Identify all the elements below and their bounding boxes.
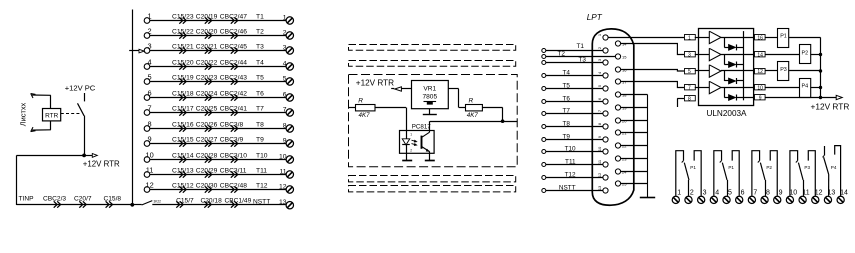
contact group P4 NO feed stub	[823, 146, 825, 157]
svg-text:CBC2/47: CBC2/47	[220, 13, 247, 20]
wire +12V RTR to TINP line	[17, 155, 85, 205]
svg-text:T3: T3	[579, 56, 587, 63]
relay coil P2	[800, 45, 811, 64]
svg-text:P4: P4	[802, 83, 809, 89]
screw terminal 4 (output)	[710, 189, 719, 203]
pin 10 of U1	[755, 85, 766, 92]
svg-text:CBC3/8: CBC3/8	[220, 121, 244, 128]
net labels row T2	[172, 28, 264, 35]
crossing marks row T7	[179, 109, 237, 115]
screw terminal 6	[283, 91, 294, 101]
wire U1 pin8 ground stub	[677, 99, 684, 108]
svg-text:+12V RTR: +12V RTR	[811, 101, 850, 111]
wire VR1 out to R2	[448, 89, 465, 108]
pin 6 of X1	[597, 97, 608, 104]
contact group P1 NO feed	[714, 151, 722, 196]
svg-text:T5: T5	[256, 74, 264, 81]
svg-text:5: 5	[148, 73, 152, 82]
pin 7 of U1	[685, 85, 696, 92]
svg-text:2: 2	[283, 29, 287, 36]
svg-text:10: 10	[597, 146, 602, 151]
svg-text:P1: P1	[690, 165, 696, 170]
wire row T3	[150, 50, 286, 52]
screw terminal 6 (output)	[736, 189, 745, 203]
pin 9 of U1 (COM)	[755, 95, 766, 102]
svg-text:7: 7	[688, 85, 691, 91]
net labels row T9	[172, 136, 264, 143]
buffer channel 3 of U1	[695, 65, 753, 77]
svg-text:C15/20: C15/20	[172, 59, 194, 66]
junction rail pin9 line	[819, 96, 822, 99]
pin 25 of X1	[615, 181, 627, 186]
svg-text:1: 1	[677, 189, 681, 196]
pin 22 of X1	[615, 143, 627, 148]
svg-text:4: 4	[597, 71, 602, 74]
net labels row NSTT	[176, 198, 270, 206]
screw terminal 2 (output)	[685, 189, 694, 203]
svg-text:CBC2/42: CBC2/42	[220, 90, 247, 97]
svg-text:10: 10	[757, 85, 763, 91]
wire coil P4 to +12V rail	[810, 87, 820, 89]
svg-text:4K7: 4K7	[359, 112, 371, 119]
svg-text:6: 6	[741, 189, 745, 196]
svg-text:C20/22: C20/22	[196, 59, 218, 66]
svg-text:7: 7	[148, 104, 152, 113]
svg-text:T1: T1	[256, 13, 264, 20]
svg-text:C20/29: C20/29	[196, 167, 218, 174]
wire T8 to X1	[542, 120, 603, 128]
junction rail P3	[819, 69, 822, 72]
wire T1 to X1	[542, 43, 603, 53]
wire coil P1 to +12V rail	[789, 37, 820, 39]
ground LED cathode	[402, 153, 412, 160]
net labels row T3	[172, 43, 264, 50]
switch SW1 contact of RTR	[78, 103, 85, 116]
svg-text:CBC2/48: CBC2/48	[220, 182, 247, 189]
node jack J6 (row T6 input)	[144, 89, 151, 101]
svg-text:7: 7	[597, 109, 602, 112]
dashed board outline (opto module)	[349, 75, 518, 167]
svg-text:T10: T10	[565, 145, 576, 152]
svg-text:3: 3	[703, 189, 707, 196]
svg-text:4: 4	[715, 189, 719, 196]
net label +12V PC	[65, 84, 96, 93]
svg-text:2: 2	[410, 148, 412, 152]
svg-text:8: 8	[597, 122, 602, 125]
svg-text:C15/23: C15/23	[172, 13, 194, 20]
svg-text:T1: T1	[577, 43, 585, 50]
svg-text:CBC2/41: CBC2/41	[220, 105, 247, 112]
contact group P1 pole arm	[684, 163, 696, 196]
svg-text:CBC2/44: CBC2/44	[220, 59, 247, 66]
svg-text:CBC2/45: CBC2/45	[220, 43, 247, 50]
svg-text:C15/15: C15/15	[172, 136, 194, 143]
ground VR1	[423, 109, 437, 115]
svg-text:14: 14	[840, 189, 848, 196]
svg-text:4: 4	[283, 60, 287, 67]
pin 3 of X1	[597, 58, 608, 65]
wire X1 pin14 to U1 in2	[621, 44, 684, 55]
svg-text:1: 1	[410, 133, 412, 137]
svg-text:C20/26: C20/26	[196, 121, 218, 128]
wire row T5	[150, 81, 286, 83]
svg-text:C20/23: C20/23	[196, 74, 218, 81]
svg-text:T8: T8	[256, 121, 264, 128]
wire T5 to X1	[542, 82, 603, 90]
wire X1 pin1 to U1 in1	[608, 37, 684, 39]
svg-text:T8: T8	[563, 120, 571, 127]
svg-text:2: 2	[148, 27, 152, 36]
diode D2 of U1	[724, 55, 743, 68]
svg-text:T6: T6	[256, 90, 264, 97]
wire U1 out to coil P2	[765, 54, 799, 56]
svg-text:5: 5	[597, 84, 602, 87]
svg-text:NSTT: NSTT	[253, 199, 270, 206]
svg-text:P4: P4	[831, 165, 837, 170]
screw terminal 1 (output)	[672, 189, 681, 203]
pin 9 of X1	[597, 135, 608, 142]
ground bus bar	[640, 197, 655, 199]
net labels row T6	[172, 90, 264, 97]
ground emitter	[425, 153, 435, 160]
svg-text:13: 13	[597, 185, 602, 190]
svg-text:PC817: PC817	[412, 123, 431, 130]
node collector junction	[501, 119, 505, 123]
svg-text:LPT: LPT	[587, 13, 603, 22]
connector X1 LPT label	[587, 13, 603, 22]
screw terminal 3 (output)	[698, 189, 707, 203]
pin 16 of X1	[615, 67, 627, 72]
svg-text:ULN2003A: ULN2003A	[706, 109, 747, 118]
svg-text:C20/18: C20/18	[201, 198, 223, 205]
svg-text:T11: T11	[256, 167, 267, 174]
svg-text:8: 8	[766, 189, 770, 196]
svg-text:C20/19: C20/19	[196, 13, 218, 20]
junction rail P4	[819, 86, 822, 89]
svg-text:3: 3	[688, 52, 691, 58]
wire T7 to X1	[542, 107, 603, 115]
wire pin9 to +12V RTR arrow	[765, 95, 842, 99]
node jack J2 (row T2 input)	[144, 27, 151, 39]
svg-text:P1: P1	[780, 33, 787, 39]
wire row T11	[150, 174, 286, 176]
svg-text:11: 11	[597, 159, 602, 164]
pin 5 of U1	[685, 69, 696, 75]
svg-text:4K7: 4K7	[467, 112, 479, 119]
wire row T1	[150, 20, 286, 22]
net labels row T1	[172, 13, 264, 20]
svg-text:P2: P2	[766, 165, 772, 170]
pin 4 of X1	[597, 71, 608, 78]
svg-text:T3: T3	[256, 43, 264, 50]
node jack J1 (row T1 input)	[144, 12, 151, 24]
svg-text:12: 12	[279, 183, 287, 190]
pin 24 of X1	[615, 169, 627, 174]
wire board edge to R1	[349, 107, 356, 109]
crossing marks row T11	[179, 171, 237, 177]
svg-text:+12V RTR: +12V RTR	[83, 160, 120, 169]
svg-text:T4: T4	[256, 59, 264, 66]
node jack J12 (row T12 input)	[144, 181, 154, 193]
pin 10 of X1	[597, 146, 608, 154]
svg-text:9: 9	[148, 135, 152, 144]
buffer channel 1 of U1	[695, 31, 753, 43]
node jack J9 (row T9 input)	[144, 135, 151, 147]
crossing marks row T4	[179, 63, 237, 69]
crossing marks row T3	[179, 47, 237, 53]
svg-text:CBC2/43: CBC2/43	[220, 74, 247, 81]
wire row NSTT	[152, 204, 285, 206]
diode D3 of U1	[724, 71, 743, 84]
wire T9 to X1	[542, 133, 603, 141]
svg-text:+12V RTR: +12V RTR	[356, 79, 394, 88]
node jack J10 (row T10 input)	[144, 151, 154, 163]
svg-text:C15/13: C15/13	[172, 167, 194, 174]
net labels row T4	[172, 59, 264, 66]
pin 18 of X1	[615, 92, 627, 97]
svg-text:5: 5	[283, 75, 287, 82]
svg-text:5: 5	[688, 69, 691, 75]
svg-text:CBC2/3: CBC2/3	[43, 195, 66, 202]
svg-text:9: 9	[779, 189, 783, 196]
wire X1 pin16 to U1 in3	[621, 70, 684, 72]
screw terminal 7	[283, 106, 294, 116]
pin 7 of X1	[597, 109, 608, 116]
svg-text:RTR: RTR	[45, 113, 58, 120]
svg-text:NSTT: NSTT	[559, 184, 576, 191]
wire row T9	[150, 143, 286, 145]
svg-text:P3: P3	[780, 67, 787, 73]
svg-text:T10: T10	[256, 152, 268, 159]
node jack J7 (row T7 input)	[144, 104, 151, 116]
relay coil RTR	[43, 109, 61, 121]
svg-text:1: 1	[148, 12, 152, 21]
svg-text:C20/21: C20/21	[196, 43, 218, 50]
screw terminal 11 (output)	[799, 189, 810, 203]
contact group P1 NC feed	[694, 151, 701, 196]
svg-text:2: 2	[690, 189, 694, 196]
cable ribbon bar 2	[349, 61, 516, 67]
screw terminal 12 (output)	[812, 189, 823, 203]
wire coil P2 to +12V rail	[810, 54, 820, 56]
svg-text:14: 14	[757, 52, 763, 58]
crossing marks row T6	[179, 94, 237, 100]
svg-text:T9: T9	[563, 133, 571, 140]
svg-text:6: 6	[597, 97, 602, 100]
svg-text:11: 11	[802, 189, 809, 196]
svg-text:13: 13	[827, 189, 835, 196]
pin 15 of X1	[615, 54, 627, 59]
wire row T8	[150, 128, 286, 130]
svg-text:2: 2	[597, 46, 602, 49]
svg-text:11: 11	[146, 166, 154, 175]
contact group P4 NC feed	[835, 146, 841, 196]
cable ribbon bar 1	[349, 45, 516, 51]
svg-text:TINP: TINP	[19, 195, 35, 202]
pin 12 of U1	[755, 69, 766, 75]
pin 11 of X1	[597, 159, 608, 167]
svg-text:9: 9	[759, 95, 762, 101]
svg-text:R: R	[358, 98, 363, 105]
svg-text:C15/16: C15/16	[172, 121, 194, 128]
wire row T12	[150, 189, 286, 191]
svg-text:6: 6	[148, 89, 152, 98]
contact group P2 NC feed	[770, 151, 777, 196]
svg-text:T9: T9	[256, 136, 264, 143]
svg-text:3: 3	[597, 58, 602, 61]
wire row T4	[150, 66, 286, 68]
svg-text:T11: T11	[565, 158, 576, 165]
svg-text:C20/27: C20/27	[196, 136, 218, 143]
contact group P3 NO feed	[790, 151, 798, 196]
junction rail P2	[819, 53, 822, 56]
wire X1 pin17 to U1 in4	[621, 82, 684, 88]
screw terminal 4	[283, 60, 294, 70]
svg-text:VR1: VR1	[423, 86, 436, 93]
svg-text:T12: T12	[256, 182, 268, 189]
pin 23 of X1	[615, 156, 627, 161]
wire NSTT to X1	[542, 184, 603, 192]
pin 20 of X1	[615, 118, 627, 123]
crossing marks row NSTT	[176, 201, 238, 207]
node +12V RTR junction	[82, 154, 86, 158]
svg-text:C20/30: C20/30	[196, 182, 218, 189]
svg-text:C15/17: C15/17	[172, 105, 194, 112]
svg-text:8: 8	[148, 120, 152, 129]
regulator VR1 7805	[412, 81, 449, 109]
svg-text:CBC3/10: CBC3/10	[220, 152, 247, 159]
resistor R2 4K7	[466, 98, 483, 120]
pin 14 of U1	[755, 52, 766, 59]
svg-text:C15/22: C15/22	[172, 28, 194, 35]
svg-text:P2: P2	[802, 50, 809, 56]
optocoupler U2 PC817	[400, 123, 435, 153]
wire RTR coil top to off-page arrow	[31, 94, 51, 109]
pin 1 of X1	[597, 33, 608, 40]
wire row T7	[150, 112, 286, 114]
pin 17 of X1	[615, 79, 627, 84]
driver IC U1 ULN2003A body	[699, 29, 754, 119]
svg-text:C20/20: C20/20	[196, 28, 218, 35]
relay coil P3	[778, 62, 789, 81]
svg-text:C15/7: C15/7	[176, 198, 194, 205]
svg-text:13: 13	[279, 199, 287, 206]
wire ground bus pins 18-25	[621, 95, 648, 198]
crossing marks row T5	[179, 78, 237, 84]
svg-text:T4: T4	[563, 69, 571, 76]
node jack J11 (row T11 input)	[144, 166, 153, 178]
wire T4 to X1	[542, 69, 603, 77]
label Listxx (rotated)	[19, 102, 28, 126]
svg-text:R: R	[469, 98, 474, 105]
svg-text:10: 10	[279, 153, 287, 160]
svg-text:15: 15	[622, 54, 627, 59]
svg-text:C15/14: C15/14	[172, 152, 194, 159]
node jack J4 (row T4 input)	[144, 58, 151, 70]
contact group P1 NO feed	[676, 151, 684, 196]
wire U1 out to coil P4	[765, 87, 799, 89]
net labels row T5	[172, 74, 264, 81]
net label +12V RTR	[83, 160, 120, 169]
pin 2 of X1	[597, 46, 608, 53]
pin 8 of X1	[597, 122, 608, 129]
contact group P3 NC feed	[808, 151, 815, 196]
svg-text:T6: T6	[563, 95, 571, 102]
wire R2 to collector node	[482, 108, 503, 122]
arrow feed to jack J3	[129, 49, 144, 53]
svg-text:3K22: 3K22	[154, 199, 162, 203]
svg-text:T12: T12	[565, 171, 576, 178]
crossing marks row T8	[179, 125, 237, 131]
svg-text:T5: T5	[563, 82, 571, 89]
screw terminal 8 (output)	[761, 189, 770, 203]
screw terminal 9 (output)	[774, 189, 783, 203]
svg-text:C20/24: C20/24	[196, 90, 218, 97]
crossing marks row T10	[179, 156, 237, 162]
net label +12V RTR (right)	[811, 101, 850, 111]
cable ribbon bar 4	[349, 186, 516, 192]
screw terminal 2	[283, 29, 294, 39]
node jack J8 (row T8 input)	[144, 120, 151, 132]
wire from +12V PC	[84, 93, 86, 101]
svg-text:T7: T7	[256, 105, 264, 112]
screw terminal 1	[283, 14, 294, 24]
svg-text:CBC3/11: CBC3/11	[220, 167, 247, 174]
switch contact NSTT row	[132, 199, 161, 205]
pin 13 of X1	[597, 185, 608, 193]
connector X1 DB25 outline	[592, 29, 634, 205]
contact group P3 pole arm	[798, 163, 810, 196]
contact group P2 NO feed	[752, 151, 760, 196]
pin 3 of U1	[685, 52, 696, 59]
buffer channel 2 of U1	[695, 48, 753, 60]
wire collector line to board edge	[430, 121, 518, 123]
svg-text:+12V PC: +12V PC	[65, 84, 96, 93]
node jack J5 (row T5 input)	[144, 73, 151, 85]
screw terminal 5 (output)	[723, 189, 732, 203]
screw terminal 5	[283, 75, 294, 85]
svg-text:8: 8	[283, 122, 287, 129]
svg-text:C15/19: C15/19	[172, 74, 194, 81]
svg-text:C15/18: C15/18	[172, 90, 194, 97]
svg-text:C20/28: C20/28	[196, 152, 218, 159]
wire row T10	[150, 159, 286, 161]
node jack J3 (row T3 input)	[144, 42, 151, 54]
pin 21 of X1	[615, 130, 627, 135]
svg-text:10: 10	[789, 189, 797, 196]
wire +12V RTR rail (right)	[820, 37, 822, 97]
svg-text:12: 12	[597, 172, 602, 177]
svg-text:12: 12	[815, 189, 823, 196]
svg-text:16: 16	[757, 35, 763, 41]
pin 1 of U1	[685, 35, 696, 42]
cable ribbon bar 3	[349, 176, 516, 182]
junction bus to TINP line	[130, 203, 134, 207]
svg-text:8: 8	[688, 96, 691, 102]
svg-text:3: 3	[148, 42, 152, 51]
svg-text:7: 7	[283, 106, 287, 113]
svg-text:4: 4	[148, 58, 152, 67]
wire T2 to X1	[542, 50, 616, 58]
svg-text:5: 5	[728, 189, 732, 196]
wire R1 to LED anode	[375, 108, 406, 131]
wire coil P3 to +12V rail	[789, 70, 820, 72]
wire row T6	[150, 97, 286, 99]
svg-text:9: 9	[597, 135, 602, 138]
crossing marks row T2	[179, 32, 237, 38]
screw terminal 10	[279, 153, 294, 163]
wire TINP line	[17, 204, 133, 206]
